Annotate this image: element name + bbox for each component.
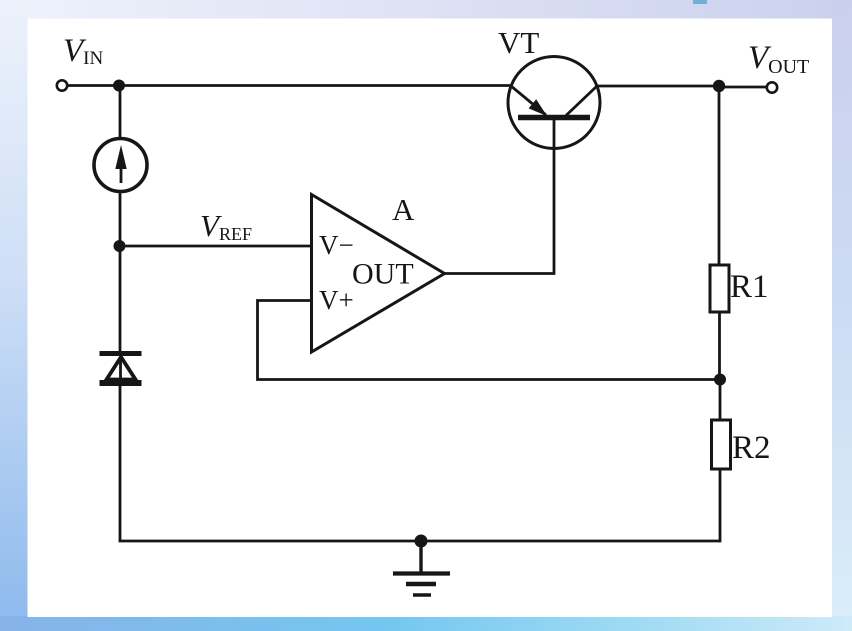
background right band — [831, 0, 852, 631]
wire R2 to bottom rail — [719, 469, 722, 542]
wire VT collector to VOUT node — [597, 85, 720, 88]
node feedback divider — [714, 374, 726, 386]
resistor R1 — [710, 265, 729, 312]
wire op-amp V+ feedback loop — [258, 301, 722, 380]
svg-text:V−: V− — [319, 230, 354, 260]
wire VREF node to op-amp V- input — [119, 245, 312, 248]
current source — [94, 139, 147, 192]
ground — [393, 541, 450, 595]
wire VOUT node to terminal — [719, 86, 766, 89]
wire feedback node to R2 — [719, 380, 722, 422]
resistor R2 — [712, 420, 731, 469]
svg-text:R1: R1 — [730, 269, 769, 305]
node VOUT — [713, 80, 725, 92]
op-amp A — [312, 192, 445, 352]
node VREF — [114, 240, 126, 252]
svg-text:V+: V+ — [319, 285, 354, 315]
terminal VIN — [57, 80, 67, 90]
zener diode — [100, 353, 142, 383]
svg-text:R2: R2 — [732, 430, 771, 466]
wire VOUT node down to R1 — [718, 86, 721, 266]
wire op-amp output to VT base — [445, 120, 555, 274]
wire current source to VREF node — [119, 192, 122, 248]
node ground junction — [415, 535, 428, 548]
wire zener to bottom rail — [119, 383, 122, 542]
background bottom band — [0, 616, 852, 631]
transistor VT — [508, 57, 600, 149]
svg-text:A: A — [392, 192, 415, 227]
svg-text:OUT: OUT — [352, 258, 414, 291]
node input rail — [113, 80, 125, 92]
wire VREF node down to zener — [119, 246, 122, 352]
wire VIN terminal to VT (top rail) — [68, 84, 511, 87]
background top band — [0, 0, 852, 20]
svg-text:VT: VT — [498, 25, 539, 60]
wire input node down to current source — [119, 86, 122, 140]
bottom rail wire — [119, 540, 720, 543]
blue dash at top edge — [693, 0, 707, 4]
terminal VOUT — [767, 82, 777, 92]
background left band — [0, 0, 28, 631]
wire R1 to feedback node — [718, 312, 721, 380]
